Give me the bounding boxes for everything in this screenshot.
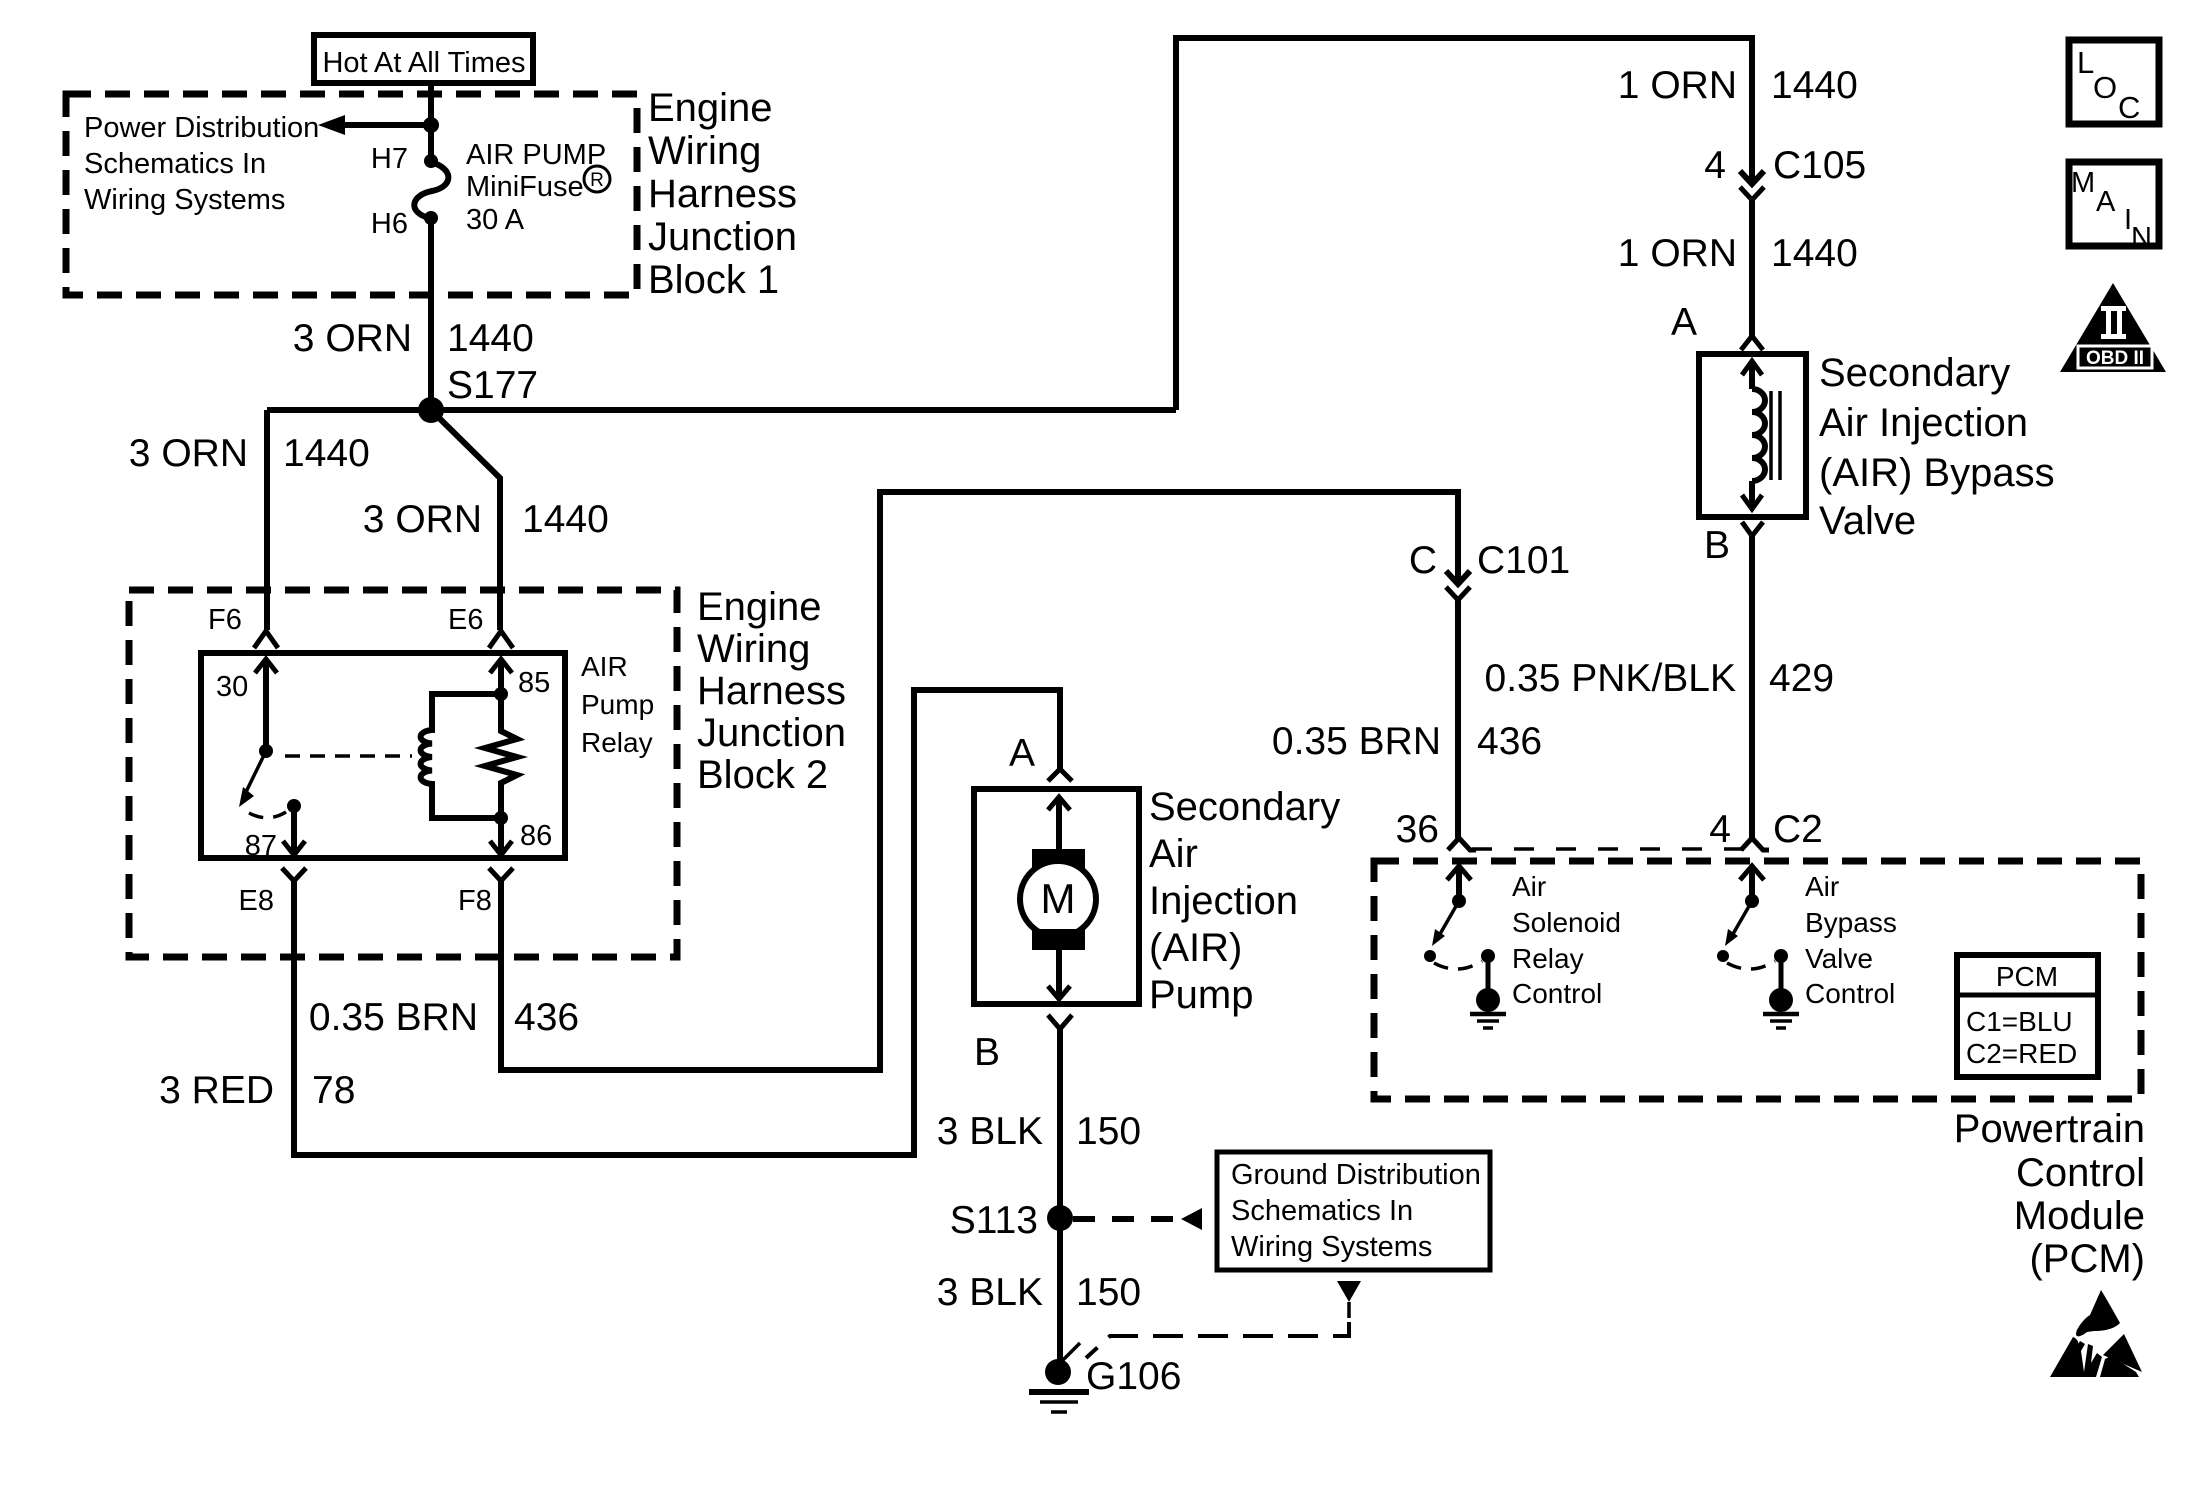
svg-text:Control: Control [1512,978,1602,1009]
label box: Hot At All Times [314,35,533,83]
svg-text:Harness: Harness [648,172,797,216]
svg-text:86: 86 [520,820,552,852]
AIR pump relay box [201,653,565,858]
label: Powertrain Control Module (PCM) [1954,1107,2145,1281]
wire: S177 horizontal run [267,407,1176,413]
svg-text:Wiring: Wiring [697,627,810,671]
relay pin 85 [490,659,550,701]
svg-text:PCM: PCM [1996,961,2058,992]
svg-text:Relay: Relay [581,727,653,758]
svg-text:1 ORN: 1 ORN [1618,64,1737,107]
svg-text:Valve: Valve [1819,499,1916,543]
pin B of AIR pump [974,1015,1072,1074]
label: 1 ORN 1440 (below C105) [1618,232,1858,275]
svg-text:1440: 1440 [1771,232,1858,275]
connector E8 [239,868,306,917]
relay switch [239,744,301,818]
svg-text:429: 429 [1769,657,1834,700]
svg-text:Pump: Pump [1149,973,1254,1017]
connector E6 [448,604,513,648]
svg-text:Control: Control [1805,978,1895,1009]
svg-text:C: C [1409,539,1437,582]
svg-text:3 ORN: 3 ORN [129,432,248,475]
svg-text:Module: Module [2014,1194,2145,1238]
PCM dashed box [1374,861,2141,1099]
wire: C101 to PCM pin 36 [1455,600,1461,838]
secondary air injection bypass valve box [1699,354,1806,517]
svg-text:E8: E8 [239,885,274,917]
pump motor [1020,797,1096,999]
wire: fuse H6 to splice S177 [428,218,434,412]
svg-text:1 ORN: 1 ORN [1618,232,1737,275]
wire: pump B to S113 [1057,1029,1063,1218]
junction block 1 dashed box [66,94,637,295]
svg-text:M: M [1041,875,1076,922]
svg-text:B: B [974,1031,1000,1074]
svg-text:C2=RED: C2=RED [1966,1038,2077,1069]
wire: F8 to connector C101 [501,492,1458,1070]
svg-text:Powertrain: Powertrain [1954,1107,2145,1151]
label: 3 RED 78 [159,1069,355,1112]
svg-text:Pump: Pump [581,689,654,720]
junction block 2 dashed box [129,590,677,957]
svg-text:Block 1: Block 1 [648,258,779,302]
symbol: OBD II [2060,283,2166,372]
svg-text:Engine: Engine [697,585,822,629]
svg-text:N: N [2131,222,2152,254]
relay dashed actuator link [285,754,412,758]
AIR pump box [974,789,1139,1004]
svg-text:L: L [2077,45,2094,80]
svg-text:(PCM): (PCM) [2029,1237,2145,1281]
label: AIR Pump Relay [581,651,654,758]
connector F6 [208,604,278,648]
svg-text:OBD II: OBD II [2086,348,2144,369]
svg-text:A: A [2096,186,2116,218]
svg-text:1440: 1440 [1771,64,1858,107]
wire: C105 to valve pin A [1749,200,1755,336]
dashed reference path from ground distribution box [1086,1281,1361,1358]
label: AIR PUMP MiniFuse (R) 30 A [466,139,610,236]
svg-text:Relay: Relay [1512,943,1584,974]
label: 3 BLK 150 (lower) [937,1271,1141,1314]
svg-text:H7: H7 [371,143,408,175]
svg-text:G106: G106 [1086,1355,1181,1398]
driver: Air Solenoid Relay Control [1424,866,1506,1028]
label: 1 ORN 1440 (above C105) [1618,64,1858,107]
svg-text:0.35 PNK/BLK: 0.35 PNK/BLK [1485,657,1736,700]
svg-text:H6: H6 [371,208,408,240]
label: Secondary Air Injection (AIR) Pump [1149,785,1340,1017]
svg-text:C1=BLU: C1=BLU [1966,1006,2073,1037]
svg-text:1440: 1440 [283,432,370,475]
svg-text:C101: C101 [1477,539,1570,582]
label: Secondary Air Injection (AIR) Bypass Valve [1819,351,2055,543]
svg-text:R: R [590,170,604,191]
svg-text:3 RED: 3 RED [159,1069,274,1112]
wire: S177 to top right feed [1176,38,1752,410]
svg-text:A: A [1671,301,1697,344]
svg-text:150: 150 [1076,1110,1141,1153]
svg-text:A: A [1009,732,1035,775]
svg-text:(AIR) Bypass: (AIR) Bypass [1819,451,2055,495]
label: 3 ORN 1440 (fuse output) [293,317,534,360]
PCM pin 36 [1396,808,1476,851]
svg-text:Wiring: Wiring [648,129,761,173]
label: Engine Wiring Harness Junction Block 2 [697,585,846,797]
label: 0.35 BRN 436 (PCM side) [1272,720,1542,763]
wire: valve B to PCM pin 4 [1749,536,1755,838]
svg-text:Air: Air [1805,871,1839,902]
splice S177 [418,397,444,423]
svg-text:Block 2: Block 2 [697,753,828,797]
svg-text:0.35 BRN: 0.35 BRN [1272,720,1441,763]
label: 3 ORN 1440 (E6 branch) [363,498,609,541]
relay resistor [485,694,517,818]
relay pin 86 [490,811,552,855]
svg-text:4: 4 [1709,808,1731,851]
junction dot (arrow branch) [423,117,439,133]
driver: Air Bypass Valve Control [1717,866,1799,1028]
reference arrow to ground distribution [1073,1208,1202,1230]
svg-text:S177: S177 [447,364,538,407]
svg-text:Control: Control [2016,1151,2145,1195]
svg-text:Power Distribution: Power Distribution [84,112,319,144]
wire: S177 left branch to F6 [264,410,270,630]
svg-text:AIR: AIR [581,651,628,682]
svg-text:3 ORN: 3 ORN [363,498,482,541]
svg-text:Schematics In: Schematics In [84,148,266,180]
wire: S113 to ground G106 [1057,1218,1063,1362]
svg-text:F8: F8 [458,885,492,917]
svg-text:O: O [2093,70,2117,105]
svg-text:M: M [2071,167,2095,199]
svg-text:Engine: Engine [648,86,773,130]
svg-text:30 A: 30 A [466,204,525,236]
PCM connector id box [1957,955,2098,1077]
svg-text:3 ORN: 3 ORN [293,317,412,360]
connector F8 [458,868,513,917]
symbol: ESD sensitive device [2050,1290,2142,1377]
connector C101 pin C [1409,539,1570,600]
svg-text:78: 78 [312,1069,355,1112]
connector C105 pin 4 [1704,144,1866,200]
bypass valve solenoid [1742,361,1780,509]
svg-text:Wiring Systems: Wiring Systems [84,184,285,216]
label: 3 ORN 1440 (left branch) [129,432,370,475]
svg-text:Bypass: Bypass [1805,907,1897,938]
svg-text:Secondary: Secondary [1819,351,2010,395]
fuse: AIR PUMP MiniFuse 30 A [414,154,448,225]
svg-text:150: 150 [1076,1271,1141,1314]
svg-text:Junction: Junction [697,711,846,755]
svg-text:Injection: Injection [1149,879,1298,923]
svg-text:S113: S113 [950,1199,1038,1242]
svg-text:85: 85 [518,667,550,699]
symbol: MAIN [2069,162,2159,254]
svg-text:4: 4 [1704,144,1726,187]
svg-text:(AIR): (AIR) [1149,926,1242,970]
svg-text:36: 36 [1396,808,1439,851]
svg-text:B: B [1704,524,1730,567]
svg-text:Wiring Systems: Wiring Systems [1231,1231,1432,1263]
svg-text:Schematics In: Schematics In [1231,1195,1413,1227]
svg-text:Secondary: Secondary [1149,785,1340,829]
label: 0.35 PNK/BLK 429 [1485,657,1835,700]
svg-text:436: 436 [1477,720,1542,763]
ground G106 [1029,1343,1181,1412]
svg-text:0.35 BRN: 0.35 BRN [309,996,478,1039]
label: Air Solenoid Relay Control [1512,871,1621,1009]
svg-text:436: 436 [514,996,579,1039]
svg-text:C105: C105 [1773,144,1866,187]
PCM pin 4 C2 [1709,808,1823,851]
svg-text:1440: 1440 [447,317,534,360]
label: Air Bypass Valve Control [1805,871,1897,1009]
pin B of bypass valve [1704,522,1763,567]
dashed link between PCM pins [1472,847,1745,851]
svg-text:Hot At All Times: Hot At All Times [322,47,525,79]
svg-text:Solenoid: Solenoid [1512,907,1621,938]
svg-text:Harness: Harness [697,669,846,713]
wire: Hot At All Times feed down [428,81,434,161]
label: 0.35 BRN 436 (F8 side) [309,996,579,1039]
symbol: LOC [2069,40,2159,125]
svg-text:E6: E6 [448,604,483,636]
relay pin 87 [245,806,305,862]
label: Engine Wiring Harness Junction Block 1 [648,86,797,302]
svg-text:AIR PUMP: AIR PUMP [466,139,606,171]
svg-text:F6: F6 [208,604,242,636]
splice S113 [950,1199,1073,1242]
svg-text:Air Injection: Air Injection [1819,401,2028,445]
relay coil [421,694,501,818]
svg-text:MiniFuse: MiniFuse [466,171,584,203]
label: 3 BLK 150 (upper) [937,1110,1141,1153]
relay pin 30 [216,659,277,751]
svg-text:87: 87 [245,830,277,862]
svg-text:3 BLK: 3 BLK [937,1110,1043,1153]
wire: E8 to pump pin A [294,690,1060,1155]
svg-text:C2: C2 [1773,808,1823,851]
svg-text:Valve: Valve [1805,943,1873,974]
svg-text:Ground Distribution: Ground Distribution [1231,1159,1481,1191]
wire: S177 diagonal branch to E6 [431,410,500,630]
pin A of bypass valve [1671,301,1763,350]
svg-text:Air: Air [1512,871,1546,902]
svg-text:C: C [2118,90,2140,125]
arrow to power distribution schematics [318,115,431,135]
note: Power Distribution Schematics In Wiring Systems [84,112,319,216]
svg-text:Junction: Junction [648,215,797,259]
svg-text:1440: 1440 [522,498,609,541]
pin A of AIR pump [1009,732,1072,781]
svg-text:3 BLK: 3 BLK [937,1271,1043,1314]
svg-text:30: 30 [216,671,248,703]
svg-text:Air: Air [1149,832,1198,876]
label box: Ground Distribution Schematics In Wiring Systems [1217,1152,1490,1270]
